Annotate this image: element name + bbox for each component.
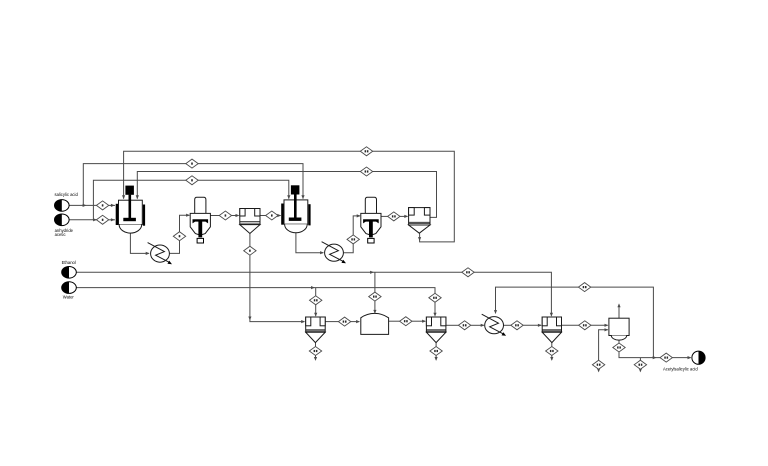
svg-text:Ethanol: Ethanol	[62, 260, 76, 265]
svg-text:salicylic acid: salicylic acid	[55, 192, 79, 197]
svg-text:acetic: acetic	[55, 232, 66, 237]
svg-text:Acetylsalicylic acid: Acetylsalicylic acid	[663, 367, 698, 372]
svg-text:Water: Water	[63, 294, 75, 299]
